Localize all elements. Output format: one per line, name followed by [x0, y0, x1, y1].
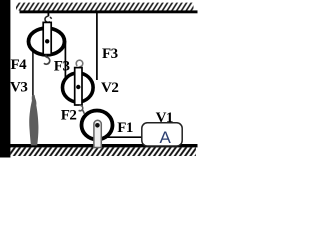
pulley U1 wheel	[29, 28, 65, 55]
svg-text:F4: F4	[11, 57, 28, 73]
pulley U1 bottom hook	[44, 57, 50, 64]
svg-text:A: A	[160, 128, 172, 147]
svg-text:F2: F2	[61, 108, 77, 124]
svg-text:F1: F1	[117, 120, 133, 136]
pulley U1 (fixed, top) stem to ceiling	[47, 13, 49, 16]
svg-text:V2: V2	[101, 80, 118, 96]
pulley U3 axle dot	[95, 123, 100, 128]
pulley U1 top hook	[45, 16, 52, 22]
pulley U3 stand post	[94, 120, 101, 147]
pulley U1 axle dot	[45, 39, 49, 43]
svg-text:V1: V1	[156, 110, 173, 126]
ground line	[10, 144, 198, 147]
ceiling line	[20, 10, 198, 13]
svg-text:F3: F3	[102, 46, 118, 62]
ground hatch	[10, 147, 196, 156]
svg-text:F3: F3	[54, 59, 70, 75]
wire rope pulley3 to box A	[105, 136, 143, 138]
pulley U2 axle bracket	[75, 68, 82, 105]
pulley U2 bottom hook	[79, 105, 85, 113]
pulley U2 axle dot	[76, 85, 80, 89]
wire rope pulley1 right down to pulley2	[64, 41, 66, 80]
ceiling hatch	[16, 3, 194, 11]
pulley U1 bottom stem	[45, 55, 47, 58]
pulley U2 wheel	[63, 73, 94, 102]
wire rope pulley1 left to weight	[32, 41, 34, 101]
pulley U1 axle bracket	[43, 22, 51, 54]
weight (hanging load)	[29, 95, 38, 145]
box A	[142, 123, 182, 146]
pulley U2 bottom stem	[79, 105, 81, 106]
wire rope ceiling to pulley V2	[96, 13, 98, 80]
pulley U3 (ground, fixed) wheel	[82, 111, 113, 140]
pulley U2 (movable, middle) top hook	[76, 60, 83, 68]
svg-text:V3: V3	[10, 80, 27, 96]
left wall bar	[0, 0, 10, 158]
